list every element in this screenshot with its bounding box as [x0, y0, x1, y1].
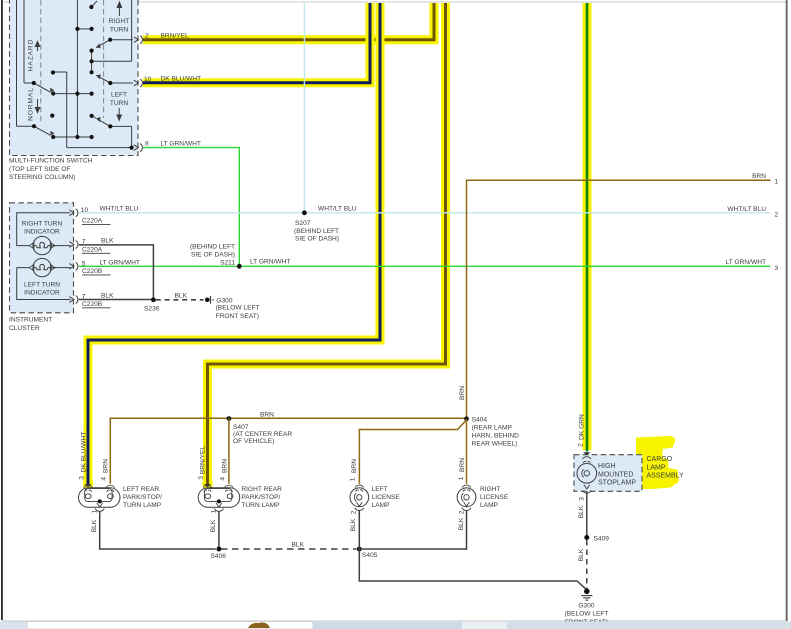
wire BLK (left license lamp pin 2 to S405)	[350, 510, 359, 549]
wire LT GRN/WHT (switch pin 8 to splice S211)	[143, 140, 239, 266]
pin 7	[69, 238, 110, 253]
wire BLK (right rear lamp pin 1 to splice S406)	[210, 509, 219, 549]
svg-text:HAZARD: HAZARD	[27, 39, 34, 72]
svg-text:LEFT REAR: LEFT REAR	[123, 486, 159, 493]
svg-text:DK BLU/WHT: DK BLU/WHT	[80, 432, 87, 473]
splice S236	[144, 297, 160, 312]
svg-text:BRN/YEL: BRN/YEL	[161, 33, 190, 40]
svg-text:1: 1	[91, 509, 98, 513]
svg-text:LT GRN/WHT: LT GRN/WHT	[161, 140, 201, 147]
svg-text:WHT/LT BLU: WHT/LT BLU	[727, 206, 766, 213]
svg-text:MULTI-FUNCTION SWITCH: MULTI-FUNCTION SWITCH	[9, 158, 93, 165]
right rear park/stop/turn lamp	[198, 485, 282, 511]
svg-text:RIGHT: RIGHT	[109, 18, 130, 25]
svg-text:8: 8	[145, 140, 149, 147]
svg-text:BLK: BLK	[350, 518, 357, 531]
svg-text:STOPLAMP: STOPLAMP	[598, 480, 636, 487]
wire WHT/LT BLU (instrument cluster pin 10 to connector pin 2)	[79, 205, 779, 218]
wire BRN (S404 to left license lamp pin 1)	[350, 420, 467, 484]
wire BLK dashed (S236 to ground G300)	[156, 293, 204, 300]
left license lamp	[350, 485, 401, 510]
svg-text:S407: S407	[233, 424, 249, 431]
svg-text:S405: S405	[362, 552, 378, 559]
svg-text:2: 2	[145, 33, 149, 40]
svg-text:3: 3	[198, 476, 205, 480]
svg-text:LT GRN/WHT: LT GRN/WHT	[726, 259, 766, 266]
svg-text:S207: S207	[295, 220, 311, 227]
svg-text:SIE OF DASH): SIE OF DASH)	[191, 251, 235, 258]
pin 10	[134, 76, 152, 87]
wire BRN/YEL (switch pin 2 to right rear lamp pin 3)	[143, 3, 446, 488]
svg-text:(REAR LAMP: (REAR LAMP	[472, 424, 513, 431]
wire BRN (S404 to right license lamp pin 1)	[458, 419, 467, 484]
svg-text:S406: S406	[211, 553, 227, 560]
svg-text:(BELOW LEFT: (BELOW LEFT	[565, 611, 609, 618]
svg-text:INSTRUMENT: INSTRUMENT	[9, 317, 52, 324]
svg-text:ASSEMBLY: ASSEMBLY	[647, 473, 685, 480]
splice S405	[357, 547, 378, 560]
wire WHT/LT BLU vertical (to splice S207)	[303, 3, 305, 213]
left rear park/stop/turn lamp	[79, 485, 163, 511]
splice S404	[464, 416, 519, 447]
svg-text:10: 10	[81, 207, 89, 214]
multi-function switch SW (top left of steering column)	[9, 0, 152, 181]
svg-text:RIGHT TURN: RIGHT TURN	[22, 220, 63, 227]
svg-text:BLK: BLK	[210, 519, 217, 532]
svg-text:RIGHT REAR: RIGHT REAR	[241, 486, 282, 493]
svg-text:OF VEHICLE): OF VEHICLE)	[233, 438, 274, 445]
svg-text:NORMAL: NORMAL	[27, 87, 34, 121]
svg-text:INDICATOR: INDICATOR	[24, 289, 60, 296]
svg-text:WHT/LT BLU: WHT/LT BLU	[318, 205, 357, 212]
svg-text:1: 1	[210, 509, 217, 513]
svg-text:BRN: BRN	[351, 459, 358, 473]
svg-text:G300: G300	[216, 297, 232, 304]
svg-text:BLK: BLK	[578, 505, 585, 518]
svg-text:STEERING COLUMN): STEERING COLUMN)	[9, 174, 75, 181]
svg-text:FRONT SEAT): FRONT SEAT)	[216, 313, 259, 320]
svg-text:PARK/STOP/: PARK/STOP/	[241, 494, 280, 501]
svg-text:HIGH: HIGH	[598, 463, 616, 470]
wire DK BLU/WHT (switch pin 10 to left rear lamp pin 3)	[78, 3, 380, 488]
svg-text:(BEHIND LEFT: (BEHIND LEFT	[190, 243, 235, 250]
splice S407	[227, 416, 293, 445]
svg-text:TURN LAMP: TURN LAMP	[123, 502, 162, 509]
svg-text:10: 10	[144, 76, 152, 83]
wire BLK (S405 to ground G300 below left front seat)	[359, 549, 587, 590]
svg-text:BRN: BRN	[221, 459, 228, 473]
svg-text:4: 4	[100, 477, 107, 481]
svg-text:RIGHT: RIGHT	[480, 486, 501, 493]
wire BLK (right license lamp pin 2 to S405)	[359, 510, 466, 549]
svg-text:LEFT: LEFT	[372, 486, 388, 493]
right license lamp	[457, 485, 509, 510]
svg-text:C220B: C220B	[82, 268, 103, 275]
svg-text:HARN, BEHIND: HARN, BEHIND	[472, 432, 519, 439]
svg-text:1: 1	[775, 178, 779, 185]
svg-text:C220A: C220A	[82, 218, 103, 225]
splice S207	[294, 205, 357, 242]
svg-text:BLK: BLK	[578, 548, 585, 561]
svg-text:LT GRN/WHT: LT GRN/WHT	[100, 259, 140, 266]
svg-text:S211: S211	[220, 259, 235, 266]
svg-text:BLK: BLK	[175, 293, 188, 300]
svg-text:S236: S236	[144, 305, 160, 312]
high mounted stoplamp (cargo lamp assembly)	[574, 436, 684, 493]
svg-text:1: 1	[350, 477, 357, 481]
wire BRN (connector pin 1 to splice S404)	[459, 173, 779, 417]
splice S409	[584, 535, 609, 542]
svg-text:LICENSE: LICENSE	[372, 494, 401, 501]
wire BLK (left rear lamp pin 1 to splice S406)	[91, 509, 216, 549]
svg-text:S409: S409	[594, 535, 610, 542]
svg-text:TURN: TURN	[110, 100, 129, 107]
svg-text:2: 2	[775, 211, 779, 218]
svg-text:LAMP: LAMP	[480, 502, 499, 509]
pin 7	[69, 293, 110, 308]
svg-text:S404: S404	[472, 416, 488, 423]
right turn indicator bulb	[29, 236, 55, 254]
wire BRN (S407 run, left rear lamp pin 4 branch)	[100, 411, 466, 483]
splice S211	[190, 243, 290, 268]
svg-text:REAR WHEEL): REAR WHEEL)	[472, 440, 518, 447]
svg-text:(TOP LEFT SIDE OF: (TOP LEFT SIDE OF	[9, 166, 71, 173]
pin 10	[69, 207, 110, 225]
ground G300 (below left front seat, bottom)	[565, 589, 609, 626]
svg-text:LAMP: LAMP	[372, 502, 391, 509]
pin 2	[134, 33, 149, 44]
wire BLK (cluster pin 7 bottom to splice S236)	[79, 292, 154, 299]
left turn indicator bulb	[29, 258, 55, 276]
svg-text:3: 3	[775, 265, 779, 272]
svg-text:2: 2	[351, 510, 358, 514]
svg-text:BRN/YEL: BRN/YEL	[200, 446, 207, 475]
svg-text:BRN: BRN	[752, 173, 766, 180]
svg-text:(AT CENTER REAR: (AT CENTER REAR	[233, 431, 292, 438]
wire BRN (S407 to right rear lamp pin 4)	[219, 418, 229, 484]
wire BLK dashed (S406 to S405)	[221, 541, 357, 549]
splice S406	[211, 547, 227, 561]
svg-text:PARK/STOP/: PARK/STOP/	[123, 494, 162, 501]
svg-text:2: 2	[458, 510, 465, 514]
svg-text:CLUSTER: CLUSTER	[9, 325, 40, 332]
svg-text:BRN: BRN	[260, 411, 274, 418]
svg-text:3: 3	[78, 476, 85, 480]
svg-text:INDICATOR: INDICATOR	[24, 228, 60, 235]
svg-text:BLK: BLK	[292, 541, 305, 548]
svg-text:BLK: BLK	[91, 519, 98, 532]
ground G300 (below left front seat)	[205, 296, 260, 320]
svg-text:TURN LAMP: TURN LAMP	[241, 502, 280, 509]
wire BLK (stoplamp pin 3 to splice S409)	[578, 491, 587, 537]
svg-text:BLK: BLK	[458, 517, 465, 530]
svg-text:C220B: C220B	[82, 301, 103, 308]
svg-text:G300: G300	[578, 602, 594, 609]
svg-text:BRN: BRN	[459, 458, 466, 472]
svg-text:LICENSE: LICENSE	[480, 494, 509, 501]
bottom taskbar band	[0, 622, 791, 629]
wire DK GRN (to high mounted stoplamp pin 2)	[577, 3, 587, 452]
wire BLK (cluster pin 7 top to splice S236)	[79, 237, 154, 299]
svg-text:BLK: BLK	[101, 237, 114, 244]
svg-text:3: 3	[578, 497, 585, 501]
svg-text:5: 5	[82, 260, 86, 267]
svg-text:LEFT: LEFT	[111, 92, 127, 99]
svg-text:WHT/LT BLU: WHT/LT BLU	[100, 205, 139, 212]
svg-text:1: 1	[458, 476, 465, 480]
svg-text:LEFT TURN: LEFT TURN	[24, 281, 60, 288]
pin 5	[69, 260, 110, 275]
svg-text:(BEHIND LEFT: (BEHIND LEFT	[294, 228, 339, 235]
svg-text:LT GRN/WHT: LT GRN/WHT	[250, 258, 290, 265]
wire LT GRN/WHT (instrument cluster pin 5 to connector pin 3)	[79, 259, 779, 272]
pin 8	[134, 140, 149, 151]
wire BLK dashed (S409 to ground G300)	[578, 540, 587, 589]
svg-text:BRN: BRN	[459, 386, 466, 400]
svg-text:TURN: TURN	[110, 26, 129, 33]
svg-text:BLK: BLK	[101, 292, 114, 299]
svg-text:CARGO: CARGO	[647, 456, 673, 463]
svg-text:(BELOW LEFT: (BELOW LEFT	[216, 305, 260, 312]
svg-text:LAMP: LAMP	[647, 464, 666, 471]
svg-text:C220A: C220A	[82, 246, 103, 253]
svg-text:2: 2	[577, 443, 584, 447]
instrument cluster	[9, 203, 111, 332]
svg-text:MOUNTED: MOUNTED	[598, 471, 633, 478]
svg-text:4: 4	[219, 477, 226, 481]
svg-text:SIE OF DASH): SIE OF DASH)	[295, 236, 339, 243]
svg-text:BRN: BRN	[102, 459, 109, 473]
svg-text:DK GRN: DK GRN	[579, 414, 586, 440]
svg-text:DK BLU/WHT: DK BLU/WHT	[161, 76, 202, 83]
